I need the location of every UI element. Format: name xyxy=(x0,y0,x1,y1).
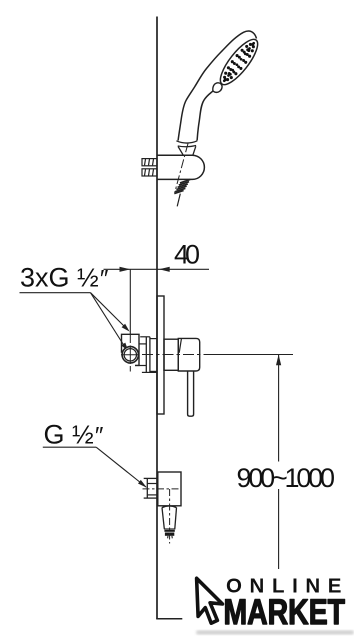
valve body with rounded right xyxy=(178,338,199,371)
outlet elbow body xyxy=(158,472,181,506)
hose nipple ribs xyxy=(164,530,174,532)
dimension arrow up xyxy=(276,355,281,366)
dimension 900~1000 vertical line xyxy=(278,355,280,569)
hand shower spray face rim xyxy=(215,34,264,89)
leader arrowhead 1 xyxy=(122,324,130,332)
valve body diagonal joint line xyxy=(179,339,181,353)
label G underline xyxy=(43,446,96,448)
holder mounting prong upper xyxy=(142,159,157,166)
logo soft gray underline xyxy=(196,630,354,634)
cone shoulder arc xyxy=(162,506,177,508)
dimension 40 arrow right-pointing xyxy=(120,267,131,272)
wall bar foot xyxy=(156,618,182,620)
inlet circle outer xyxy=(122,347,138,363)
lever rod xyxy=(188,371,194,416)
collar cone right edge xyxy=(193,146,196,155)
svg-text:3xG ½″: 3xG ½″ xyxy=(20,263,109,293)
svg-text:900~1000: 900~1000 xyxy=(237,463,336,493)
valve horizontal centre line xyxy=(122,354,205,356)
outlet hex nut flange bottom xyxy=(144,497,157,499)
inlet circle inner xyxy=(124,349,136,361)
extension line down from dim 40 xyxy=(129,269,131,335)
outlet vertical centre line xyxy=(169,489,171,544)
holder axis centre line (dash-dot) xyxy=(175,144,188,193)
hose spring coil xyxy=(174,180,190,194)
dimension 40 arrow left-pointing xyxy=(159,267,170,272)
box bottom line to union xyxy=(135,365,146,367)
valve adapter block xyxy=(164,339,178,370)
cone bottom line xyxy=(164,528,175,530)
leader arrowhead 2 xyxy=(121,343,128,351)
spray face nozzle dots xyxy=(223,42,255,82)
svg-text:G ½″: G ½″ xyxy=(44,420,104,450)
leader line to inlet circle xyxy=(91,293,125,346)
svg-text:MARKET: MARKET xyxy=(224,593,346,632)
leader line to inlet box xyxy=(91,293,126,328)
circle cross horizontal xyxy=(121,354,140,356)
collar cone left edge xyxy=(178,147,183,156)
outlet hex nut left edge xyxy=(146,478,148,498)
hand shower head back outline xyxy=(178,31,256,141)
union body bottom line xyxy=(150,370,157,372)
logo cursor arrow xyxy=(197,578,223,623)
dimension 40 line xyxy=(104,268,210,270)
box-union connector line xyxy=(139,343,146,345)
hose cone left edge xyxy=(162,508,164,529)
holder mounting prong lower xyxy=(142,169,157,176)
leader line to outlet nut xyxy=(96,447,146,487)
hand shower handle right edge xyxy=(197,91,213,141)
outlet centre line horizontal xyxy=(143,488,182,490)
union flange bottom line xyxy=(142,371,157,373)
mixer inlet box xyxy=(122,334,140,365)
outlet hex nut body lines xyxy=(147,483,157,485)
circle cross vertical xyxy=(129,346,131,365)
valve vertical centre line xyxy=(129,335,131,372)
handle collar band arc top xyxy=(176,141,197,143)
wall mounting bar (vertical rail line) xyxy=(156,17,158,619)
svg-text:40: 40 xyxy=(174,240,200,270)
union body top line xyxy=(150,338,157,340)
hose line below coil xyxy=(177,194,180,207)
handle collar band arc bottom xyxy=(178,146,196,147)
dimension 900~1000 text backing xyxy=(235,462,338,490)
leader arrowhead outlet xyxy=(138,480,147,488)
nipple tail xyxy=(168,536,173,539)
shower holder body xyxy=(157,155,204,179)
union ring verticals xyxy=(145,337,147,373)
hose cone right edge xyxy=(175,508,177,529)
label underline xyxy=(20,292,91,294)
union flange top line xyxy=(140,336,150,338)
outlet hex nut flange top xyxy=(144,477,157,479)
escutcheon plate xyxy=(157,296,164,414)
hang hole teardrop below face xyxy=(213,83,222,93)
